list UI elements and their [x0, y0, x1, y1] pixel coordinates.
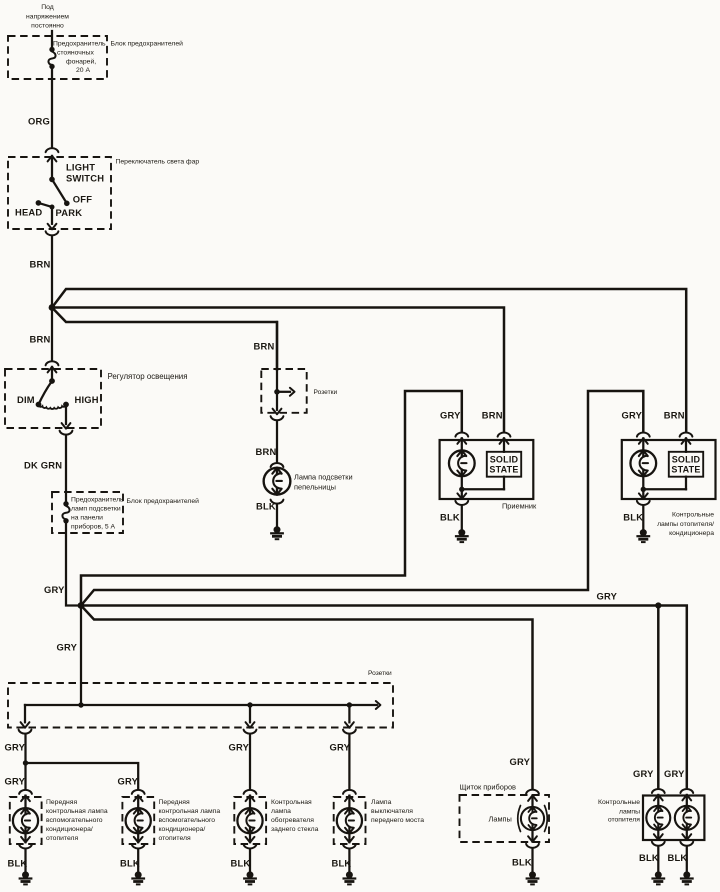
sockets box (Розетки) — [8, 683, 393, 728]
wire: heater-AC indicator module lamp to module common — [642, 476, 644, 490]
svg-text:обогревателя: обогревателя — [271, 816, 314, 824]
wire BLK: receiver — [461, 506, 463, 529]
wire: heater lamp R feed — [686, 795, 688, 807]
junction: feed into bus — [78, 702, 83, 707]
svg-text:SOLID: SOLID — [490, 454, 519, 464]
connector: light switch output — [48, 224, 57, 230]
bulb: ashtray illumination lamp — [264, 468, 291, 495]
wire BLK: heater lamp R — [686, 847, 688, 871]
connector: heater lamp R output — [682, 834, 691, 840]
wire DK GRN: dimmer to instrument fuse — [65, 436, 67, 503]
svg-text:BLK: BLK — [332, 858, 352, 869]
wire: lamp 2 ground lead — [137, 833, 139, 842]
connector: into instrument cluster — [526, 790, 539, 794]
svg-text:SOLID: SOLID — [672, 454, 701, 464]
svg-text:Розетки: Розетки — [314, 389, 338, 396]
arrow: bus continuation — [376, 701, 381, 709]
svg-text:переднего моста: переднего моста — [371, 817, 424, 824]
splice S3 (GRY right) — [655, 602, 661, 608]
svg-text:GRY: GRY — [633, 768, 654, 779]
svg-text:Контрольные: Контрольные — [598, 799, 640, 806]
wire BLK: cluster — [531, 849, 533, 871]
svg-text:GRY: GRY — [5, 776, 26, 787]
svg-text:Розетки: Розетки — [368, 670, 392, 677]
svg-text:напряжением: напряжением — [26, 14, 69, 21]
svg-text:BRN: BRN — [30, 259, 51, 270]
connector: receiver output — [457, 493, 466, 499]
wire BRN bus B: splice to receiver solid state — [52, 308, 504, 432]
connector: into front aux A/C-heater indicator lamp 1 — [19, 790, 32, 794]
lamp box: front aux indicator lamp 1 — [10, 797, 42, 844]
wire: splice to lamp 1 — [24, 763, 26, 788]
svg-text:Предохранитель: Предохранитель — [53, 41, 106, 48]
svg-text:HEAD: HEAD — [15, 207, 42, 218]
connector: BRN into heater-AC indicator module — [680, 433, 693, 437]
wire GRY bus 3: splice to heater indicator lamps — [81, 604, 656, 607]
connector: BRN into receiver — [498, 433, 511, 437]
svg-text:вспомогательного: вспомогательного — [159, 817, 216, 824]
fuse: parking lamps fuse 20 A — [48, 47, 55, 69]
ground: receiver — [455, 529, 469, 542]
bulb: front axle switch lamp — [337, 808, 362, 833]
junction: drop 3 — [247, 702, 252, 707]
wire: cluster lamp feed — [531, 795, 533, 807]
module: SOLID STATE (heater-AC indicator module) — [669, 452, 703, 477]
svg-text:Переключатель света фар: Переключатель света фар — [116, 159, 200, 166]
svg-text:BLK: BLK — [120, 858, 140, 869]
connector: ashtray lamp output — [271, 500, 284, 504]
ground: heater lamp L — [651, 871, 665, 884]
wire: drop 1 elbow — [24, 705, 26, 722]
wire: front aux A/C-heater indicator lamp 2 feed stub — [137, 796, 139, 809]
wire BLK: front axle switch lamp to ground — [348, 850, 350, 871]
lamp box: rear defogger indicator lamp — [234, 797, 266, 844]
wire: heater lamp L feed — [657, 795, 659, 807]
wire: switch feed — [51, 156, 53, 179]
wire BLK: ashtray lamp to ground — [276, 505, 278, 526]
wire: front axle switch lamp to ground lead — [348, 833, 350, 842]
wire: dimmer output — [65, 405, 67, 425]
svg-text:контрольная лампа: контрольная лампа — [46, 808, 108, 815]
svg-text:PARK: PARK — [56, 207, 83, 218]
wire: S3 to right heater lamp — [658, 606, 687, 789]
junction: socket tap — [274, 389, 280, 395]
connector: into front aux A/C-heater indicator lamp 2 — [132, 790, 145, 794]
connector: rear defogger indicator lamp output — [246, 837, 255, 843]
ground: rear defogger indicator lamp — [243, 871, 257, 884]
bulb: front aux A/C-heater indicator lamp 2 — [126, 808, 151, 833]
svg-text:лампы: лампы — [619, 808, 640, 815]
connector: into front axle switch lamp — [343, 790, 356, 794]
svg-text:20 А: 20 А — [76, 67, 90, 74]
svg-text:Лампы: Лампы — [489, 815, 512, 824]
svg-text:Передняя: Передняя — [159, 799, 190, 806]
svg-text:ORG: ORG — [28, 116, 50, 127]
svg-text:BRN: BRN — [664, 410, 685, 421]
splice S2 (GRY) — [78, 602, 85, 609]
wire: tie to lamp 2 — [26, 763, 139, 788]
svg-text:Блок предохранителей: Блок предохранителей — [111, 40, 184, 48]
svg-text:SWITCH: SWITCH — [66, 173, 104, 184]
svg-text:отопителя: отопителя — [608, 817, 640, 824]
ground: cluster — [526, 871, 540, 884]
connector: into ashtray lamp — [271, 463, 284, 467]
ground: front axle switch lamp — [343, 871, 357, 884]
wire: drop 3 — [249, 705, 251, 722]
svg-text:отопителя: отопителя — [46, 835, 78, 842]
splice S4 — [23, 760, 28, 765]
svg-text:BLK: BLK — [512, 857, 532, 868]
lamp box: front axle switch lamp — [334, 797, 366, 844]
svg-text:STATE: STATE — [671, 465, 700, 475]
svg-text:BRN: BRN — [254, 341, 275, 352]
socket box (Розетки) — [261, 369, 306, 413]
bulb: heater-AC indicator module indicator — [630, 450, 656, 476]
svg-text:OFF: OFF — [73, 194, 92, 205]
svg-text:BLK: BLK — [440, 512, 460, 523]
wire BRN: light switch to splice — [51, 236, 53, 305]
wire ORG: fuse block to light switch — [51, 69, 53, 147]
wire: front aux A/C-heater indicator lamp 1 feed stub — [24, 796, 26, 809]
svg-text:Лампа подсветки: Лампа подсветки — [294, 473, 353, 482]
connector: into dimmer — [46, 361, 59, 365]
wire: receiver lamp feed — [461, 438, 463, 451]
connector: cluster output — [528, 836, 537, 842]
svg-text:GRY: GRY — [597, 591, 618, 602]
svg-text:Под: Под — [41, 4, 54, 11]
svg-text:STATE: STATE — [489, 465, 518, 475]
svg-text:приборов, 5 А: приборов, 5 А — [71, 523, 116, 531]
wire GRY bus 2: splice to heater/AC lamp — [81, 391, 643, 606]
svg-text:Передняя: Передняя — [46, 799, 77, 806]
connector: heater-AC indicator module output — [639, 493, 648, 499]
ground: lamp 1 — [19, 871, 33, 884]
svg-text:BRN: BRN — [482, 410, 503, 421]
wire: socket box output — [276, 392, 278, 410]
svg-text:ламп подсветки: ламп подсветки — [71, 506, 121, 513]
wire: cluster lamp ground lead — [531, 830, 533, 842]
connector: socket box output — [273, 409, 282, 415]
svg-text:BRN: BRN — [30, 334, 51, 345]
svg-text:лампа: лампа — [271, 808, 291, 815]
junction: heater-AC indicator module common — [641, 487, 646, 492]
svg-text:контрольная лампа: контрольная лампа — [159, 808, 221, 815]
ground: heater lamp R — [680, 871, 694, 884]
svg-text:Контрольная: Контрольная — [271, 799, 312, 806]
svg-text:GRY: GRY — [118, 776, 139, 787]
wire: heater-AC indicator module output — [642, 489, 644, 497]
svg-text:лампы отопителя/: лампы отопителя/ — [657, 521, 714, 528]
svg-text:BRN: BRN — [256, 446, 277, 457]
svg-text:Блок предохранителей: Блок предохранителей — [127, 497, 200, 505]
box: receiver — [440, 440, 534, 499]
svg-text:BLK: BLK — [668, 852, 688, 863]
connector: drop 1 out of sockets box — [21, 722, 30, 728]
wire: heater lamp R ground lead — [686, 830, 688, 840]
wire: front axle switch lamp feed stub — [348, 796, 350, 809]
svg-text:кондиционера/: кондиционера/ — [159, 826, 206, 833]
wire: BRN stub into module — [685, 438, 687, 452]
svg-text:GRY: GRY — [44, 584, 65, 595]
svg-text:BLK: BLK — [623, 512, 643, 523]
bulb: receiver indicator — [449, 450, 475, 476]
wire: socket feed — [277, 391, 290, 393]
connector: lamp 1 output — [21, 837, 30, 843]
svg-text:LIGHT: LIGHT — [66, 162, 95, 173]
connector: GRY into heater-AC indicator module — [637, 433, 650, 437]
wire BLK: rear defogger indicator lamp to ground — [249, 850, 251, 871]
wire: battery feed into fuse block — [51, 31, 53, 48]
svg-text:отопителя: отопителя — [159, 835, 191, 842]
bulb: heater indicator lamp L — [646, 806, 670, 830]
connector: into heater lamp L — [652, 789, 665, 793]
box: heater-AC indicator module — [622, 440, 716, 499]
wire BLK: heater-AC indicator module — [642, 506, 644, 529]
connector: dimmer output — [62, 423, 71, 429]
wire GRY: splice to sockets bus — [80, 606, 82, 705]
junction: receiver common — [459, 487, 464, 492]
svg-text:Регулятор освещения: Регулятор освещения — [108, 372, 188, 381]
dimmer box (Регулятор освещения) — [5, 369, 101, 428]
fuse block box (Блок предохранителей) — [8, 36, 107, 79]
svg-text:фонарей,: фонарей, — [66, 58, 96, 66]
svg-text:кондиционера: кондиционера — [669, 530, 714, 537]
wire BLK: heater lamp L — [657, 847, 659, 871]
svg-text:GRY: GRY — [57, 642, 78, 653]
wire: PARK output inside switch — [51, 207, 53, 224]
wire: drop 4 — [348, 705, 350, 722]
svg-text:GRY: GRY — [664, 768, 685, 779]
svg-text:DK GRN: DK GRN — [24, 460, 62, 471]
connector: lamp 2 output — [134, 837, 143, 843]
bulb: heater indicator lamp R — [675, 806, 699, 830]
svg-text:GRY: GRY — [440, 410, 461, 421]
wire GRY bus 4: splice to instrument cluster lamps — [81, 606, 533, 789]
fuse block box 2 (Блок предохранителей) — [52, 492, 123, 533]
connector: drop 3 out of sockets box — [246, 722, 255, 728]
wire BLK: lamp 2 — [137, 850, 139, 871]
svg-text:стояночных: стояночных — [57, 50, 94, 57]
svg-text:DIM: DIM — [17, 394, 35, 405]
wire: receiver output — [461, 489, 463, 497]
svg-text:Приемник: Приемник — [502, 502, 537, 511]
bulb: rear defogger indicator lamp — [237, 808, 262, 833]
wire BRN bus A: splice to heater/AC solid state (right) — [52, 289, 686, 431]
arrow: socket feed — [290, 388, 295, 396]
svg-text:BLK: BLK — [8, 858, 28, 869]
connector: into heater lamp R — [680, 789, 693, 793]
svg-text:постоянно: постоянно — [31, 23, 64, 30]
connector: ORG wire to light switch — [46, 148, 59, 152]
wire BRN bus C: splice to ashtray branch — [52, 308, 277, 370]
svg-text:Щиток приборов: Щиток приборов — [460, 783, 517, 792]
module: SOLID STATE (receiver) — [487, 452, 521, 477]
svg-text:на панели: на панели — [71, 515, 103, 522]
splice S1 (BRN) — [49, 304, 56, 311]
switch: light switch wiper and contacts — [49, 177, 55, 183]
wire: rear defogger indicator lamp to ground lead — [249, 833, 251, 842]
wire GRY: to rear defogger indicator lamp — [249, 735, 251, 789]
wire: lamp 1 ground lead — [24, 833, 26, 842]
wire BRN: splice to dimmer — [51, 308, 53, 361]
bulb: instrument cluster lamp — [521, 807, 544, 830]
fuse: instrument panel lamps fuse 5 A — [62, 501, 69, 523]
svg-text:GRY: GRY — [622, 410, 643, 421]
connector: GRY into receiver — [455, 433, 468, 437]
connector: drop 4 out of sockets box — [345, 722, 354, 728]
svg-text:GRY: GRY — [330, 742, 351, 753]
wire: heater lamp L ground lead — [657, 830, 659, 840]
svg-text:вспомогательного: вспомогательного — [46, 817, 103, 824]
wire: heater-AC indicator module lamp feed — [642, 438, 644, 451]
wire: rear defogger indicator lamp feed stub — [249, 796, 251, 809]
wire GRY: to front axle switch lamp — [348, 735, 350, 789]
connector: heater lamp L output — [654, 834, 663, 840]
wire: BRN stub into module — [503, 438, 505, 452]
wire BRN: to ashtray lamp — [276, 422, 278, 462]
svg-text:GRY: GRY — [229, 742, 250, 753]
bulb: front aux A/C-heater indicator lamp 1 — [13, 808, 38, 833]
wire: sockets distribution bus — [25, 704, 377, 706]
wire GRY: fuse to splice — [66, 523, 79, 606]
instrument panel box — [460, 795, 550, 842]
svg-text:кондиционера/: кондиционера/ — [46, 826, 93, 833]
svg-text:выключателя: выключателя — [371, 808, 413, 815]
lamp box: front aux indicator lamp 2 — [122, 797, 154, 844]
svg-text:BLK: BLK — [231, 858, 251, 869]
svg-text:пепельницы: пепельницы — [294, 483, 336, 492]
wire: receiver lamp to module common — [461, 476, 463, 490]
ground: lamp 2 — [131, 871, 145, 884]
svg-text:HIGH: HIGH — [75, 394, 99, 405]
svg-text:Предохранитель: Предохранитель — [71, 497, 124, 504]
connector: into rear defogger indicator lamp — [244, 790, 257, 794]
wire GRY bus 1: splice to receiver lamp — [81, 391, 462, 606]
svg-text:BLK: BLK — [256, 501, 276, 512]
wire: S3 down to left heater lamp — [657, 606, 660, 789]
wire GRY: sockets drop 1 — [24, 735, 26, 763]
light switch box (Переключатель света фар) — [8, 157, 111, 229]
switch: dimmer wiper DIM/HIGH — [51, 367, 53, 381]
box: heater indicator lamps — [643, 796, 704, 841]
svg-text:GRY: GRY — [5, 742, 26, 753]
wire BRN: into socket box — [276, 322, 278, 391]
svg-text:заднего стекла: заднего стекла — [271, 826, 319, 833]
svg-text:Лампа: Лампа — [371, 799, 392, 806]
ground: ashtray lamp — [270, 526, 284, 539]
connector: front axle switch lamp output — [345, 837, 354, 843]
svg-text:BLK: BLK — [639, 852, 659, 863]
svg-text:Контрольные: Контрольные — [672, 512, 714, 519]
ground: heater-AC indicator module — [636, 529, 650, 542]
wire BLK: lamp 1 — [24, 850, 26, 871]
svg-text:GRY: GRY — [510, 756, 531, 767]
junction: drop 4 — [347, 702, 352, 707]
bracket: cluster lamp multiple — [518, 806, 521, 832]
